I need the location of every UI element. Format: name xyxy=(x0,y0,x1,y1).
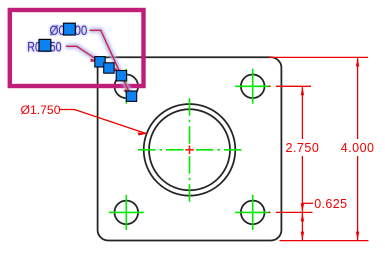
arrowhead leader Ø1.750 xyxy=(138,132,147,135)
center mark hole bottom-right xyxy=(235,195,270,230)
extension line top hole center (2.750) xyxy=(269,85,312,87)
central bore circle inner xyxy=(149,109,230,190)
leader R0.250 xyxy=(66,46,100,61)
svg-text:4.000: 4.000 xyxy=(341,141,375,155)
arrowhead 4.000 bottom xyxy=(356,232,359,241)
dimension line 0.625 xyxy=(301,212,303,240)
svg-text:2.750: 2.750 xyxy=(286,141,320,155)
grip on arrow R0.250 xyxy=(95,57,105,67)
selected leader Ø0.500 glow xyxy=(66,30,132,96)
leader landing 0.625 xyxy=(302,202,313,204)
arrowhead 4.000 top xyxy=(356,57,359,66)
arrowhead 2.750 bottom xyxy=(301,203,304,212)
hole top-right xyxy=(241,75,265,99)
center mark hole top-right xyxy=(235,69,270,104)
leader Ø0.500 xyxy=(90,30,132,96)
leader Ø1.750 xyxy=(60,110,147,134)
plate outline xyxy=(98,57,282,240)
svg-text:Ø1.750: Ø1.750 xyxy=(21,103,61,117)
arrowhead Ø0.500 near xyxy=(113,68,121,76)
center line horizontal of bore (dash-dot) xyxy=(138,98,242,202)
extension line bottom edge xyxy=(280,240,369,242)
dimension line 4.000 xyxy=(357,57,359,240)
magenta zoom-window rectangle xyxy=(10,10,144,86)
extension line top edge (4.000) xyxy=(269,56,369,58)
arrowhead 0.625 bottom xyxy=(301,232,304,241)
center mark hole top-left xyxy=(109,69,144,104)
center line vertical of bore (dash-dot) xyxy=(189,98,191,202)
arrowhead 2.750 top xyxy=(301,86,304,95)
arrowhead 0.625 top xyxy=(301,212,304,221)
hole bottom-left xyxy=(115,201,139,225)
hole bottom-right xyxy=(241,201,265,225)
arrowhead Ø0.500 far xyxy=(123,89,131,97)
grip at fillet center xyxy=(104,63,114,73)
central bore circle outer xyxy=(144,104,236,196)
grip on text Ø0.500 xyxy=(64,23,76,35)
center red cross of bore xyxy=(185,146,194,155)
grip on arrow Ø0.500 near xyxy=(116,71,126,81)
grip on text R0.250 xyxy=(39,39,51,51)
extension line bottom hole center xyxy=(269,211,313,213)
grip on arrow Ø0.500 far xyxy=(126,91,136,101)
dimension line 2.750 xyxy=(301,86,303,212)
hole top-left xyxy=(115,75,139,99)
red dimension graphics xyxy=(60,57,369,240)
arrowhead R0.250 xyxy=(90,58,99,61)
center mark hole bottom-left xyxy=(109,195,144,230)
svg-text:0.625: 0.625 xyxy=(314,197,347,211)
